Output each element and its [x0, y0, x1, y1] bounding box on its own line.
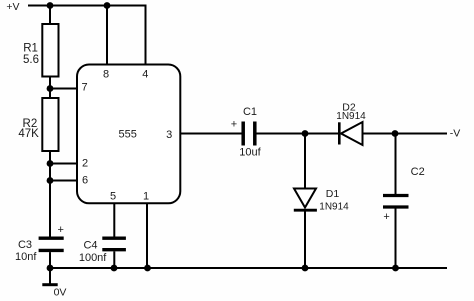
svg-text:R1: R1	[23, 43, 38, 55]
wire C2 column down	[395, 134, 397, 195]
svg-text:-V: -V	[450, 127, 461, 139]
junction dot C2 column	[392, 130, 399, 137]
svg-text:+: +	[383, 211, 389, 223]
wire pin 5 lead to C4	[113, 203, 115, 236]
capacitor C1	[241, 122, 245, 146]
wire pin 2 lead	[50, 163, 77, 165]
svg-text:C3: C3	[18, 239, 32, 251]
capacitor C3	[39, 236, 64, 239]
junction dot bottom pin 1	[144, 265, 151, 272]
svg-text:8: 8	[103, 69, 109, 81]
junction dot pin 7	[47, 85, 54, 92]
svg-text:100nf: 100nf	[79, 252, 107, 264]
op-amp U1 555 timer body	[77, 65, 180, 204]
wire C1 to -V rail	[257, 133, 448, 135]
svg-text:C4: C4	[83, 240, 97, 252]
capacitor C4	[102, 236, 126, 239]
svg-text:C2: C2	[411, 166, 425, 178]
wire top rail to R1	[49, 6, 51, 25]
wire bottom rail	[50, 267, 447, 269]
junction dot pin 6	[47, 177, 54, 184]
wire D1 column down	[304, 134, 306, 189]
svg-text:47K: 47K	[18, 128, 39, 140]
svg-text:+: +	[231, 119, 237, 131]
svg-text:D1: D1	[326, 188, 340, 200]
svg-text:+: +	[57, 224, 63, 236]
junction dot pin 2	[47, 160, 54, 167]
resistor R2	[42, 98, 58, 151]
wire R1 to R2	[49, 77, 51, 99]
wire pin 3 to C1	[180, 133, 241, 135]
svg-text:4: 4	[142, 69, 148, 81]
wire C4 to bottom rail	[113, 251, 115, 268]
junction dot bottom C2	[392, 265, 399, 272]
svg-text:555: 555	[119, 129, 137, 141]
svg-text:5: 5	[110, 191, 116, 203]
junction dot top rail at R1	[47, 2, 54, 9]
wire pin 8 lead	[106, 6, 108, 65]
wire pin 6 lead	[50, 180, 77, 182]
svg-text:10uf: 10uf	[239, 147, 261, 159]
junction dot bottom D1	[302, 265, 309, 272]
ground	[49, 268, 51, 284]
svg-text:+V: +V	[6, 1, 19, 13]
svg-text:0V: 0V	[54, 287, 67, 299]
svg-text:6: 6	[82, 174, 88, 186]
svg-text:2: 2	[82, 157, 88, 169]
wire C2 to bottom rail	[395, 209, 397, 269]
junction dot bottom C3	[47, 265, 54, 272]
diode D2	[338, 122, 341, 144]
junction dot bottom C4	[111, 265, 118, 272]
svg-text:1N914: 1N914	[319, 202, 349, 213]
svg-text:10nf: 10nf	[15, 251, 37, 263]
junction dot D1 column	[302, 130, 309, 137]
junction dot top rail at pin 8	[104, 2, 111, 9]
wire R2 down to C3	[49, 151, 51, 237]
wire D1 to bottom rail	[304, 210, 306, 268]
svg-text:C1: C1	[243, 106, 257, 118]
wire C3 to bottom rail	[49, 252, 51, 268]
svg-text:5.6: 5.6	[23, 54, 39, 66]
capacitor C2	[383, 194, 409, 197]
svg-text:1: 1	[143, 191, 149, 203]
svg-text:7: 7	[81, 82, 87, 94]
svg-text:1N914: 1N914	[336, 111, 366, 122]
svg-text:3: 3	[166, 129, 172, 141]
wire pin 7 lead	[50, 88, 77, 90]
diode D1	[294, 189, 316, 208]
wire pin 1 lead to bottom rail	[146, 203, 148, 268]
resistor R1	[42, 24, 58, 77]
wire +V rail with corner down to pin 4	[28, 6, 146, 65]
